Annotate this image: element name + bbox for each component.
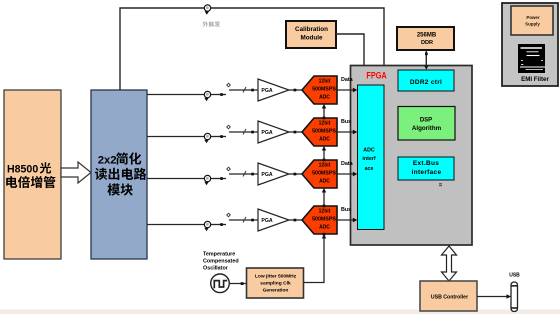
- node input port CH4: [204, 221, 210, 227]
- svg-text:Bus: Bus: [341, 119, 351, 125]
- svg-text:=: =: [439, 183, 443, 189]
- channel 3 input wire: [147, 178, 204, 180]
- svg-text:PGA: PGA: [261, 88, 272, 94]
- svg-text:USB Controller: USB Controller: [431, 295, 468, 301]
- svg-text:500MSPS: 500MSPS: [312, 129, 336, 135]
- EMI filter photo: [518, 44, 545, 73]
- node input port CH3: [204, 175, 210, 181]
- svg-text:ace: ace: [365, 166, 374, 172]
- svg-text:PGA: PGA: [261, 218, 272, 224]
- ADC interface: [358, 85, 385, 230]
- block arrow PMT to readout: [61, 162, 91, 183]
- svg-text:12bit: 12bit: [319, 163, 331, 169]
- ADC A4: [302, 206, 337, 234]
- PMT module H8500: [4, 90, 61, 259]
- svg-text:256MB: 256MB: [417, 32, 437, 38]
- wire clock gen to ADC chain: [304, 236, 325, 283]
- clock generation block: [247, 268, 304, 298]
- svg-text:ADC: ADC: [319, 224, 330, 230]
- svg-text:500MSPS: 500MSPS: [312, 217, 336, 223]
- svg-text:FPGA: FPGA: [366, 71, 386, 81]
- power panel: [502, 3, 558, 86]
- USB controller: [420, 281, 477, 311]
- node input port CH2: [204, 133, 210, 139]
- wire amp to ADC CH2: [289, 131, 302, 133]
- svg-text:H8500: H8500: [7, 164, 38, 176]
- double arrow FPGA to USB: [442, 246, 457, 281]
- svg-text:Calibration: Calibration: [295, 26, 328, 33]
- svg-text:Low jitter 500MHz: Low jitter 500MHz: [255, 274, 297, 280]
- readout module 2x2: [91, 90, 147, 259]
- svg-text:sampling Clk: sampling Clk: [260, 281, 291, 287]
- svg-text:ADC: ADC: [363, 148, 375, 154]
- power module box: [511, 6, 553, 35]
- ADC A1: [302, 76, 337, 104]
- svg-text:ADC: ADC: [319, 178, 330, 184]
- wire amp to ADC CH1: [289, 89, 302, 91]
- svg-text:500MSPS: 500MSPS: [312, 171, 336, 177]
- svg-text:12bit: 12bit: [319, 209, 331, 215]
- wire amp to ADC CH4: [289, 219, 302, 221]
- svg-text:Algorithm: Algorithm: [412, 125, 442, 132]
- svg-text:Generation: Generation: [263, 288, 289, 294]
- calibration block: [286, 21, 336, 48]
- node coupling mark CH2: [227, 125, 231, 129]
- wire port to coupling CH4: [211, 224, 226, 226]
- svg-text:Ext.Bus: Ext.Bus: [413, 160, 439, 167]
- svg-text:Compensated: Compensated: [203, 259, 239, 265]
- svg-text:12bit: 12bit: [319, 79, 331, 85]
- node coupling mark CH1: [227, 83, 231, 87]
- label external trigger: [203, 21, 209, 27]
- wire readout top to FPGA trigger: [120, 8, 384, 90]
- wire port to coupling CH2: [211, 136, 226, 138]
- svg-text:PGA: PGA: [261, 130, 272, 136]
- wire amp to ADC CH3: [289, 173, 302, 175]
- svg-text:Data: Data: [341, 161, 354, 167]
- oscillator symbol: [211, 274, 230, 293]
- DSP Algorithm: [398, 107, 455, 141]
- node coupling mark CH3: [227, 167, 231, 171]
- wire ADC to FPGA CH2: [337, 131, 354, 133]
- wire ADC to FPGA CH4: [337, 219, 354, 221]
- wire coupling to amp CH1: [229, 89, 258, 91]
- wire ADC to FPGA CH1: [337, 89, 354, 91]
- wire coupling to amp CH2: [229, 131, 258, 133]
- wire coupling to amp CH3: [229, 173, 258, 175]
- wire coupling to amp CH4: [229, 219, 258, 221]
- svg-text:EMI Filter: EMI Filter: [521, 76, 549, 83]
- svg-text:Module: Module: [300, 34, 323, 41]
- svg-text:interf: interf: [362, 156, 375, 162]
- svg-text:Data: Data: [341, 77, 354, 83]
- ADC A3: [302, 160, 337, 188]
- svg-text:12bit: 12bit: [319, 121, 331, 127]
- svg-text:Oscillator: Oscillator: [203, 266, 229, 272]
- svg-text:Bus: Bus: [341, 207, 351, 213]
- wire port to coupling CH3: [211, 178, 226, 180]
- svg-text:interface: interface: [412, 169, 442, 176]
- channel 1 input wire: [147, 94, 204, 96]
- svg-text:USB: USB: [509, 273, 520, 279]
- op-amp PGA2: [258, 121, 289, 143]
- channel 2 input wire: [147, 136, 204, 138]
- DDR2 ctrl: [398, 70, 454, 91]
- op-amp PGA1: [258, 79, 289, 101]
- svg-text:PGA: PGA: [261, 172, 272, 178]
- node external trigger port: [204, 5, 210, 11]
- svg-text:Supply: Supply: [525, 22, 540, 27]
- wire USB controller to connector: [477, 296, 508, 298]
- svg-text:500MSPS: 500MSPS: [312, 87, 336, 93]
- wire clock chain segment: [323, 189, 325, 206]
- wire clock chain segment: [323, 147, 325, 160]
- Ext Bus interface: [398, 157, 454, 180]
- svg-text:Temperature: Temperature: [203, 252, 235, 258]
- svg-text:ADC: ADC: [319, 136, 330, 142]
- channel 4 input wire: [147, 224, 204, 226]
- node input port CH1: [204, 91, 210, 97]
- op-amp PGA3: [258, 163, 289, 185]
- ADC A2: [302, 118, 337, 146]
- op-amp PGA4: [258, 209, 289, 231]
- svg-text:DDR: DDR: [421, 40, 433, 46]
- FPGA block: [351, 66, 473, 246]
- node coupling mark CH4: [227, 213, 231, 217]
- svg-text:2x2: 2x2: [98, 155, 117, 167]
- wire osc to clock gen: [229, 283, 246, 285]
- svg-text:ADC: ADC: [319, 94, 330, 100]
- wire calibration to FPGA: [336, 34, 364, 65]
- svg-text:Power: Power: [526, 15, 539, 20]
- svg-text:DSP: DSP: [420, 118, 432, 124]
- wire port to coupling CH1: [211, 94, 226, 96]
- memory 256MB DDR: [397, 27, 454, 50]
- wire ADC to FPGA CH3: [337, 173, 354, 175]
- wire DDR to DDR2 ctrl: [425, 50, 427, 67]
- wire clock into ADC A4: [322, 234, 326, 239]
- svg-text:DDR2 ctrl: DDR2 ctrl: [410, 79, 442, 86]
- wire clock chain segment: [323, 105, 325, 118]
